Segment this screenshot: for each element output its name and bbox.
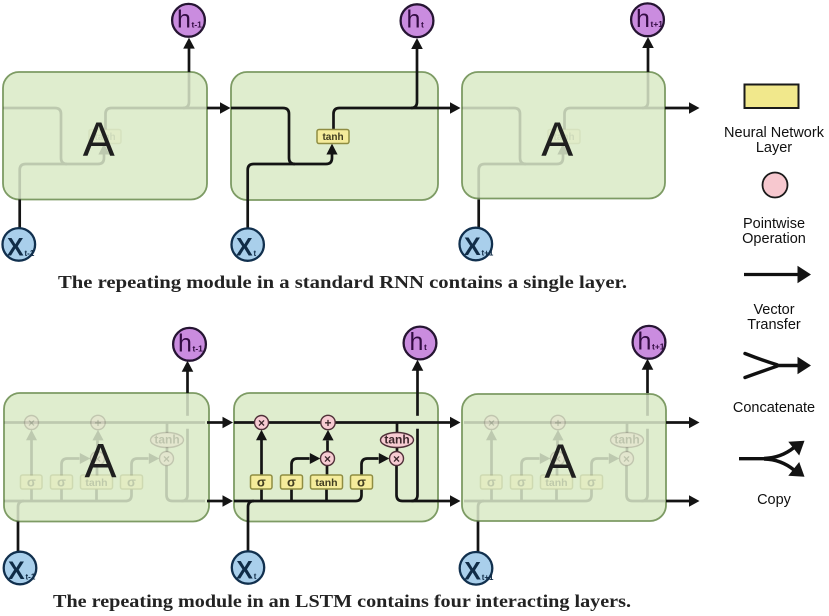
node x(t) (232, 228, 264, 260)
wire C arrow cell t-1 to cell t (207, 421, 223, 424)
wire x(t) input stub lower (247, 522, 250, 552)
node x(t) lower (232, 551, 264, 583)
svg-text:A: A (541, 113, 573, 166)
svg-text:t+1: t+1 (482, 249, 494, 258)
svg-text:t: t (421, 20, 424, 30)
LSTM cell A (t) body (234, 393, 438, 522)
svg-text:t-1: t-1 (25, 249, 35, 258)
wire h arrow cell t to cell t+1 (435, 500, 451, 503)
legend vector transfer arrow (744, 273, 798, 276)
wire arrow cell t-1 to cell t (207, 107, 221, 110)
svg-text:t-1: t-1 (193, 343, 204, 353)
legend pointwise operation swatch (763, 173, 788, 198)
svg-text:h: h (638, 327, 652, 355)
svg-text:X: X (464, 557, 481, 585)
svg-text:t: t (254, 249, 257, 258)
svg-text:X: X (236, 234, 253, 262)
wire h(t+1) output arrow lower (646, 369, 649, 393)
faded LSTM internals of cell t-1 (4, 393, 205, 522)
wire C arrow cell t+1 output (666, 421, 690, 424)
node h(t+1) lower (633, 326, 666, 359)
wire C arrow cell t to cell t+1 (435, 421, 451, 424)
svg-text:The repeating module in an LST: The repeating module in an LSTM contains… (53, 591, 631, 611)
node h(t) (401, 4, 434, 37)
svg-text:The repeating module in a stan: The repeating module in a standard RNN c… (58, 272, 627, 292)
wire arrow cell t to cell t+1 (435, 107, 451, 110)
svg-text:X: X (7, 233, 24, 261)
svg-text:h: h (178, 329, 192, 357)
svg-text:t-1: t-1 (26, 573, 36, 582)
svg-text:A: A (544, 436, 576, 489)
node h(t+1) (631, 3, 664, 36)
svg-text:A: A (84, 435, 116, 488)
wire h(t-1) output arrow lower (186, 371, 189, 393)
svg-text:h: h (636, 5, 650, 33)
wire h(t+1) output arrow (647, 48, 650, 72)
svg-text:h: h (407, 6, 421, 34)
faded RNN internals of cell t-1 (3, 72, 207, 200)
active RNN internals of cell t (231, 72, 435, 200)
svg-text:Layer: Layer (756, 140, 792, 156)
wire h(t) output arrow lower (416, 370, 419, 393)
svg-text:h: h (177, 5, 191, 33)
legend concatenate symbol (745, 354, 777, 365)
node x(t-1) (3, 228, 36, 261)
svg-text:t+1: t+1 (652, 341, 665, 351)
wire x(t-1) input stub (18, 200, 21, 229)
wire h arrow cell t-1 to cell t (207, 500, 223, 503)
RNN cell A (t+1) body (462, 72, 665, 199)
svg-text:Transfer: Transfer (747, 317, 801, 333)
legend copy symbol (739, 457, 766, 460)
node x(t+1) (460, 228, 493, 261)
active LSTM internals of cell t (234, 393, 435, 522)
wire h(t-1) output arrow (188, 48, 191, 72)
svg-text:Concatenate: Concatenate (733, 400, 815, 416)
svg-text:h: h (410, 328, 424, 356)
svg-text:t: t (424, 342, 427, 352)
svg-text:t+1: t+1 (651, 19, 664, 29)
faded LSTM internals of cell t+1 (464, 393, 665, 522)
wire x(t+1) input stub lower (477, 522, 480, 553)
wire x(t+1) input stub (477, 200, 480, 229)
svg-text:Copy: Copy (757, 492, 792, 508)
svg-text:Operation: Operation (742, 231, 806, 247)
svg-text:t-1: t-1 (192, 19, 203, 29)
node x(t-1) lower (4, 552, 37, 585)
svg-text:t: t (254, 572, 257, 581)
RNN cell A (t) body (231, 72, 438, 200)
node h(t-1) (172, 4, 205, 37)
wire h(t) output arrow (416, 48, 419, 72)
node x(t+1) lower (460, 552, 493, 585)
wire x(t-1) input stub lower (17, 522, 20, 552)
svg-text:X: X (236, 557, 253, 585)
svg-text:X: X (464, 233, 481, 261)
svg-text:Vector: Vector (753, 302, 794, 318)
LSTM cell A (t+1) body (462, 394, 666, 521)
svg-text:X: X (8, 557, 25, 585)
LSTM cell A (t-1) body (4, 393, 209, 522)
svg-text:t+1: t+1 (482, 573, 494, 582)
faded RNN internals of cell t+1 (462, 72, 666, 200)
svg-text:A: A (83, 114, 115, 167)
wire x(t) input stub (246, 200, 249, 229)
wire h arrow cell t+1 output (666, 500, 690, 503)
legend neural network layer swatch (745, 85, 799, 109)
node h(t) lower (404, 327, 437, 360)
svg-text:Neural Network: Neural Network (724, 125, 825, 141)
node h(t-1) lower (173, 328, 206, 361)
RNN cell A (t-1) body (3, 72, 207, 200)
wire arrow cell t+1 output right (665, 107, 690, 110)
svg-text:Pointwise: Pointwise (743, 216, 805, 232)
